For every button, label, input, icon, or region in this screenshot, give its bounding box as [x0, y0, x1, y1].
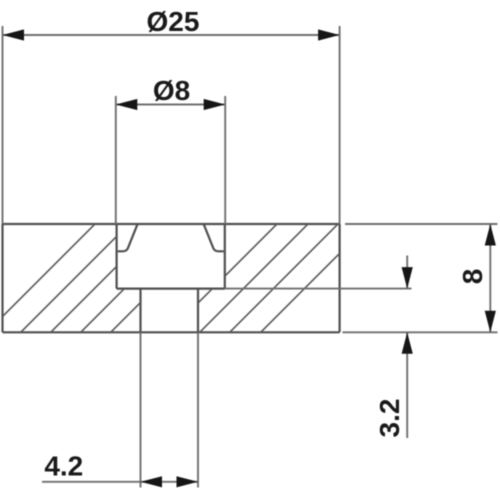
through hole right wall	[197, 289, 199, 333]
ext line right Ø8	[224, 96, 226, 224]
dim line 4.2	[42, 481, 198, 483]
arrow left 4.2	[141, 476, 163, 487]
arrow down 8	[485, 311, 496, 333]
svg-text:Ø8: Ø8	[153, 75, 190, 106]
dim line 8	[489, 224, 491, 332]
ext line 3.2 (counterbore bottom extended)	[225, 288, 412, 290]
hatch right piece	[168, 223, 370, 333]
svg-text:Ø25: Ø25	[147, 6, 200, 37]
hatch left piece	[0, 223, 220, 333]
arrow up 8	[485, 224, 496, 246]
ext line top right	[345, 223, 498, 225]
dim line Ø25	[3, 34, 340, 36]
arrow down to 288.6	[402, 267, 413, 289]
counterbore right wall	[224, 224, 226, 289]
body bottom edge	[3, 331, 340, 333]
ext line right 4.2	[197, 332, 199, 487]
ext line left 4.2	[140, 332, 142, 487]
counterbore left wall	[115, 224, 117, 289]
arrow left Ø25	[3, 29, 25, 40]
arrow left Ø8	[116, 99, 138, 110]
dim line 3.2 upper segment	[406, 256, 408, 289]
ext line bottom right	[343, 331, 498, 333]
svg-text:4.2: 4.2	[44, 451, 83, 482]
body right edge	[339, 224, 341, 332]
ext line left Ø25	[2, 26, 4, 224]
svg-text:8: 8	[457, 269, 488, 285]
body top edge	[3, 223, 340, 225]
arrow up to 332.3	[402, 332, 413, 354]
ext line right Ø25	[339, 26, 341, 224]
arrow right Ø8	[204, 99, 226, 110]
arrow right Ø25	[318, 29, 340, 40]
ext line left Ø8	[115, 96, 117, 224]
dim line 3.2 lower segment	[406, 332, 408, 438]
right notch groove	[204, 225, 224, 252]
left notch groove	[118, 225, 138, 252]
through hole left wall	[139, 289, 141, 333]
body left edge	[1, 224, 3, 332]
dim line Ø8	[116, 104, 225, 106]
svg-text:3.2: 3.2	[374, 399, 405, 438]
arrow right 4.2	[177, 476, 199, 487]
counterbore bottom	[117, 288, 225, 290]
